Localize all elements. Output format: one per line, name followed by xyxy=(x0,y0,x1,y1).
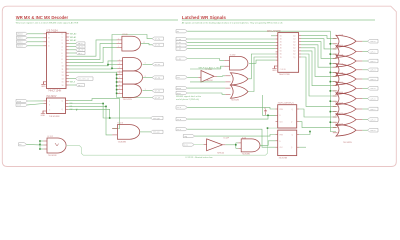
or gate IC12 xyxy=(336,55,356,67)
svg-text:10: 10 xyxy=(62,66,64,68)
wire latch data xyxy=(187,48,275,50)
wire Q6 to gate xyxy=(301,54,336,96)
buffer IC12A xyxy=(201,71,214,83)
svg-text:74LS32N: 74LS32N xyxy=(231,100,240,102)
net flag LD-C xyxy=(176,128,187,132)
svg-text:15: 15 xyxy=(62,82,64,84)
net flag WRMX3 xyxy=(17,44,28,47)
ground U2 xyxy=(41,111,46,118)
U1 pin 14 xyxy=(66,74,69,76)
register U4 MR-LATCH8 xyxy=(278,33,299,73)
junction xyxy=(116,74,118,76)
U1 pin 9 xyxy=(66,58,69,60)
svg-text:LWR-9: LWR-9 xyxy=(370,130,375,132)
wire INC0 xyxy=(68,99,119,129)
wire WR tap xyxy=(330,63,336,65)
wire CLK2 to buffer2 xyxy=(194,144,203,146)
U1 pin 6 xyxy=(66,49,69,51)
svg-text:IC12F: IC12F xyxy=(224,138,230,140)
net flag LWR-6 xyxy=(368,97,379,101)
svg-text:L-D3: L-D3 xyxy=(177,49,181,51)
junction WR tap xyxy=(330,111,332,113)
svg-text:WR-MC: WR-MC xyxy=(155,64,160,66)
wire tap in1 xyxy=(40,140,44,142)
svg-text:IC9 74154: IC9 74154 xyxy=(47,29,59,32)
svg-text:LD-C: LD-C xyxy=(177,129,181,131)
U4 Q3 stub xyxy=(299,44,301,46)
gate1 out stub xyxy=(356,40,362,42)
wire latch d0 xyxy=(271,35,276,37)
svg-text:GND: GND xyxy=(41,86,46,88)
wire gate8 out xyxy=(362,108,367,110)
svg-text:WR-MB: WR-MB xyxy=(155,45,161,47)
net flag LWR-8 xyxy=(368,118,379,122)
or gate IC19 xyxy=(336,124,356,136)
svg-text:74HCT154N: 74HCT154N xyxy=(48,90,62,93)
U1 gnd pin xyxy=(44,81,47,83)
wire PH2 to buffer xyxy=(187,76,198,78)
svg-text:LWR-0: LWR-0 xyxy=(370,41,375,43)
wire U1 pin to flag WR-SP xyxy=(69,49,76,51)
net flag WR-MA xyxy=(152,37,164,40)
wire tap B2 xyxy=(108,64,117,66)
net flag INC-Q0 xyxy=(151,116,164,120)
gate4 out stub xyxy=(356,69,362,71)
junction EN bot xyxy=(39,148,41,150)
or gate IC14A xyxy=(231,73,249,85)
gate9 in1 stub xyxy=(333,116,338,118)
wire INCA xyxy=(28,100,44,102)
U4 Q6 stub xyxy=(299,53,301,55)
U1 pin 5 xyxy=(66,46,69,48)
or gate IC16 xyxy=(336,93,356,105)
wire tap xyxy=(116,81,119,83)
wire L-D4 to AND xyxy=(187,59,224,61)
wire INC1 xyxy=(68,103,103,105)
wire INC2 xyxy=(68,106,112,134)
gate2 out stub xyxy=(356,51,362,53)
or gate IC17 xyxy=(336,103,356,115)
gate10 in2 stub xyxy=(333,132,338,134)
wire U1 pin to flag WR-B xyxy=(69,42,76,44)
wire U1 to flag WR-Y xyxy=(69,84,76,86)
junction LD-B xyxy=(267,115,269,117)
wire Q7 to gate xyxy=(301,57,336,106)
svg-text:74LS08N: 74LS08N xyxy=(242,154,251,156)
svg-text:INC-Q0: INC-Q0 xyxy=(153,118,159,120)
wire U5 Qb to gate10 xyxy=(299,122,336,128)
svg-text:LWR-8: LWR-8 xyxy=(370,119,375,121)
svg-text:LWR-7: LWR-7 xyxy=(370,109,375,111)
svg-text:1: 1 xyxy=(118,39,119,41)
net flag L-D2 xyxy=(176,44,187,47)
wire buffer1 out xyxy=(217,75,225,78)
wire WRMX2 to U1 xyxy=(28,41,44,43)
svg-text:Latched WR Signals: Latched WR Signals xyxy=(182,15,227,20)
svg-text:WRP1: WRP1 xyxy=(177,93,181,95)
junction WR tap xyxy=(330,72,332,74)
U4 Q0 stub xyxy=(299,35,301,37)
wire U6 Qb xyxy=(299,146,306,148)
net flag LWR-0 xyxy=(368,39,379,43)
svg-text:LDQ: LDQ xyxy=(184,136,187,138)
wire net D1 xyxy=(69,44,117,60)
svg-text:WR-A2: WR-A2 xyxy=(70,39,77,42)
svg-text:74LS21N: 74LS21N xyxy=(123,99,133,101)
U2 out pin 1 xyxy=(66,103,69,105)
and gate IC12 1/4 xyxy=(47,138,66,153)
net flag LD-B xyxy=(176,117,187,121)
svg-text:L-D4: L-D4 xyxy=(177,58,181,60)
wire U1 pin to flag WR-PC xyxy=(69,46,76,48)
gate7 out stub xyxy=(356,98,362,100)
wire WR tap xyxy=(330,53,336,55)
net flag L-D0 xyxy=(176,37,187,40)
svg-text:74HC373N: 74HC373N xyxy=(279,74,290,76)
wire WR tap xyxy=(330,71,336,73)
U4 Q7 stub xyxy=(299,56,301,58)
svg-text:74-HC-LATCH-2x: 74-HC-LATCH-2x xyxy=(278,102,295,105)
U1 pin 3 xyxy=(66,39,69,41)
net flag LWR-7 xyxy=(368,107,379,111)
junction EN top xyxy=(39,140,41,142)
svg-text:WR-A1: WR-A1 xyxy=(70,36,77,39)
U1 pin 4 xyxy=(66,42,69,44)
wire gate5 out xyxy=(362,78,367,80)
junction WR tap xyxy=(330,63,332,65)
wire net D3 xyxy=(69,61,117,66)
wire net D5 xyxy=(69,72,152,97)
junction xyxy=(116,78,118,80)
svg-text:13: 13 xyxy=(62,75,64,77)
svg-text:12: 12 xyxy=(62,72,64,74)
latch U5 xyxy=(278,105,297,128)
net flag LWR-2 xyxy=(368,59,379,63)
svg-text:WR MX & INC MX Decoder: WR MX & INC MX Decoder xyxy=(16,15,69,20)
wire Q3 to gate xyxy=(301,45,336,67)
U1 pin 8 xyxy=(66,55,69,57)
wire tap xyxy=(116,89,119,91)
net flag WR xyxy=(176,30,187,33)
gate10 in1 stub xyxy=(333,127,338,129)
svg-text:PH2: PH2 xyxy=(177,77,180,79)
buffer1 out stub xyxy=(214,75,217,77)
net flag L-D3 xyxy=(176,47,187,50)
and gate IC13D xyxy=(230,57,248,71)
wire AND13D out xyxy=(249,60,276,63)
gate4 in1 stub xyxy=(333,66,338,68)
svg-text:MR-LATCH8: MR-LATCH8 xyxy=(267,30,281,33)
wire LD-A to U5 xyxy=(187,107,275,109)
wire EN vertical xyxy=(39,141,41,149)
svg-text:11: 11 xyxy=(62,69,64,71)
wire net D2 xyxy=(69,47,117,62)
wire in2 AND13D xyxy=(190,66,224,69)
or gate IC10 xyxy=(336,35,356,47)
svg-text:GND: GND xyxy=(272,70,277,72)
junction EN mid xyxy=(39,144,41,146)
wire gate6 out xyxy=(362,87,367,89)
svg-text:IC 1/2: IC 1/2 xyxy=(48,136,54,138)
gate10 out stub xyxy=(356,129,362,131)
net flag WRMX0 xyxy=(17,32,28,35)
right title underline xyxy=(182,19,375,21)
gate3 out stub xyxy=(356,60,362,62)
svg-text:7: 7 xyxy=(62,56,63,58)
wire LD-C to U6 xyxy=(187,129,275,147)
svg-text:1: 1 xyxy=(118,46,119,48)
svg-text:What each register's role is i: What each register's role is in which WR… xyxy=(16,21,79,24)
svg-text:WRP0: WRP0 xyxy=(177,88,181,90)
U4 Q1 stub xyxy=(299,38,301,40)
svg-text:1: 1 xyxy=(118,42,119,44)
gate1 in1 stub xyxy=(333,38,338,40)
wire WR common xyxy=(187,31,336,131)
wire gate7 out xyxy=(362,98,367,100)
svg-text:WR-MF: WR-MF xyxy=(155,97,160,99)
wire Q5 to gate xyxy=(301,51,336,86)
wire LD-B to U5 xyxy=(187,115,275,119)
gate7 in2 stub xyxy=(333,100,338,102)
wire tap in3 xyxy=(40,148,44,150)
wire U1 to flag INC-MOV16 xyxy=(69,78,76,80)
frame border xyxy=(2,6,396,166)
wire IC10D out xyxy=(141,44,153,45)
U4 Q4 stub xyxy=(299,47,301,49)
net arrow down xyxy=(76,109,78,111)
net flag WRP1 xyxy=(176,91,187,95)
svg-text:LWR-6: LWR-6 xyxy=(370,98,375,100)
U2 gnd pin xyxy=(43,110,47,112)
wire EN xyxy=(27,143,41,146)
net flag INC-MOV-16 xyxy=(76,77,94,81)
wire WR-CLK long route xyxy=(66,128,278,155)
U2 out pin 3 xyxy=(66,108,69,110)
wire tap xyxy=(116,85,119,87)
wire WRMX3 to U1 xyxy=(28,45,44,47)
wire tap xyxy=(116,77,119,79)
net flag WR-B xyxy=(76,42,86,45)
net flag LWR-5 xyxy=(368,87,379,91)
svg-text:WR-MX signals latch at the: WR-MX signals latch at the xyxy=(176,95,202,98)
gate2 in2 stub xyxy=(333,53,338,55)
junction INC1 xyxy=(102,103,104,105)
wire INCB xyxy=(28,104,44,105)
net flag LWR-3 xyxy=(368,68,379,72)
junction buffer2 xyxy=(235,144,237,146)
net flag L-D1 xyxy=(176,41,187,45)
net flag WRMX1 xyxy=(17,36,28,39)
junction xyxy=(116,93,118,95)
wire IC11B out xyxy=(143,77,153,79)
svg-text:WR-X: WR-X xyxy=(70,82,76,84)
svg-text:All signals are latched on the: All signals are latched on the leading e… xyxy=(182,21,284,24)
net flag WR-MD xyxy=(152,76,164,79)
svg-text:PRE: PRE xyxy=(280,135,283,137)
svg-text:EN: EN xyxy=(19,144,21,146)
svg-text:PRE: PRE xyxy=(280,109,283,111)
or gate IC15 xyxy=(336,82,356,94)
wire IC11A out xyxy=(143,63,153,65)
wire gate4 out xyxy=(362,69,367,71)
junction INC2 xyxy=(105,106,107,108)
wire gate1 out xyxy=(362,40,367,42)
U6 Q stub xyxy=(297,134,299,136)
U4 gnd pin xyxy=(275,65,278,67)
svg-text:INC-MOV: INC-MOV xyxy=(47,96,57,98)
svg-text:WRMX1: WRMX1 xyxy=(17,38,22,40)
junction WR tap xyxy=(330,121,332,123)
wire gate10 out xyxy=(362,129,367,131)
net flag LWR-4 xyxy=(368,77,379,81)
net A marker xyxy=(264,107,267,115)
latch U2 74LS109 xyxy=(47,98,66,114)
gate8 out stub xyxy=(356,108,362,110)
junction xyxy=(111,68,113,70)
net flag LDQ xyxy=(183,135,195,138)
net flag PH2 xyxy=(176,76,187,80)
U5 Q stub xyxy=(297,108,299,110)
svg-text:6: 6 xyxy=(62,53,63,55)
ground U1 xyxy=(41,81,46,88)
svg-text:IC10D: IC10D xyxy=(122,34,128,36)
net flag WR-MC xyxy=(152,63,164,66)
svg-text:74LS74N: 74LS74N xyxy=(279,157,288,159)
net flag INCA xyxy=(16,99,28,102)
U4 Q2 stub xyxy=(299,41,301,43)
junction xyxy=(116,85,118,87)
svg-text:WRMX0: WRMX0 xyxy=(17,34,22,36)
U5 Qb stub xyxy=(297,121,299,123)
junction xyxy=(116,81,118,83)
svg-text:3: 3 xyxy=(62,43,63,45)
svg-text:LWR-3: LWR-3 xyxy=(370,70,375,72)
svg-text:IC13D: IC13D xyxy=(230,55,236,57)
wire U5 Q to gate9 xyxy=(299,109,336,117)
svg-text:74LS32N: 74LS32N xyxy=(343,142,352,144)
net flag LWR-9 xyxy=(368,128,379,132)
net flag WR-Y xyxy=(76,84,85,87)
svg-text:5: 5 xyxy=(62,50,63,52)
wire AND3 in1 xyxy=(236,142,238,144)
gate7 in1 stub xyxy=(333,95,338,97)
wire net D4 to flag xyxy=(69,35,152,70)
and gate IC13B xyxy=(241,139,260,152)
net flag INC-Q1 xyxy=(151,130,164,134)
svg-text:WR-ME: WR-ME xyxy=(155,91,160,93)
junction xyxy=(116,89,118,91)
svg-text:74LS08N: 74LS08N xyxy=(118,142,127,144)
U1 pin 2 xyxy=(66,36,69,38)
wire WR tap xyxy=(330,90,336,92)
wire WRP0 to OR2 xyxy=(187,87,225,89)
or gate IC14 xyxy=(336,73,356,85)
and gate IC11C xyxy=(123,84,142,97)
svg-text:1: 1 xyxy=(62,37,63,39)
wire latch data xyxy=(187,38,275,40)
or gate IC18 xyxy=(336,114,356,126)
U1 pin 11 xyxy=(66,65,69,67)
gate2 in1 stub xyxy=(333,48,338,50)
svg-text:0: 0 xyxy=(62,34,63,36)
svg-text:CLK2: CLK2 xyxy=(184,144,188,146)
gate6 in1 stub xyxy=(333,85,338,87)
or gate IC13 xyxy=(336,64,356,76)
svg-text:74HC04: 74HC04 xyxy=(217,153,224,155)
junction WR-CLK xyxy=(267,127,269,129)
wire latch data xyxy=(187,45,275,47)
net flag WR-SP xyxy=(76,48,86,51)
svg-text:2: 2 xyxy=(62,40,63,42)
net flag WR-PC xyxy=(76,45,86,48)
net flag EN xyxy=(19,143,27,146)
wire Q2 to gate xyxy=(301,42,336,59)
gate9 out stub xyxy=(356,119,362,121)
net flag L-D4 xyxy=(176,57,187,60)
wire U6 Q up xyxy=(299,132,310,135)
junction WR tap xyxy=(330,100,332,102)
gate1 in2 stub xyxy=(333,43,338,45)
wire WR tap xyxy=(330,81,336,83)
wire Q1 to gate xyxy=(301,39,336,49)
wire INC3 xyxy=(68,109,109,118)
wire AND3 in2 xyxy=(236,147,238,149)
U1 pin 13 xyxy=(66,71,69,73)
svg-text:IC 1/3: IC 1/3 xyxy=(118,123,124,125)
svg-text:LWR-4: LWR-4 xyxy=(370,79,375,81)
wire OR1 out xyxy=(248,54,276,79)
buffer2 out stub xyxy=(222,144,225,146)
decoder U1 74HCT154 xyxy=(47,32,67,88)
net flag INCB xyxy=(16,103,28,106)
svg-text:GND: GND xyxy=(41,115,46,117)
buffer IC12F xyxy=(207,139,223,151)
junction WR tap xyxy=(330,43,332,45)
U4 Q5 stub xyxy=(299,50,301,52)
junction U6 Q xyxy=(309,131,311,133)
svg-text:WR-MD: WR-MD xyxy=(155,77,160,79)
U1 pin 16 xyxy=(66,81,69,83)
net flag WR-T xyxy=(76,52,86,55)
junction WR tap xyxy=(330,81,332,83)
junction WR tap xyxy=(330,90,332,92)
gate5 in2 stub xyxy=(333,81,338,83)
gate3 in2 stub xyxy=(333,63,338,65)
gate9 in2 stub xyxy=(333,121,338,123)
svg-text:74LS109N: 74LS109N xyxy=(49,116,60,118)
U1 pin 17 xyxy=(66,84,69,86)
wire IC11C out xyxy=(143,90,153,92)
wire Q0 to gate xyxy=(301,36,336,39)
U1 pin 12 xyxy=(66,68,69,70)
wire INC1 to flag xyxy=(103,104,150,119)
wire tap xyxy=(116,92,119,94)
svg-text:14: 14 xyxy=(62,78,64,80)
wire gate2 out xyxy=(362,51,367,53)
wire buffer2 split xyxy=(235,143,237,149)
and gate IC13A xyxy=(117,125,139,140)
wire IC13A out xyxy=(140,131,151,133)
junction WR tap xyxy=(330,53,332,55)
wire LDQ to U6 xyxy=(195,135,276,137)
net flag WR-ME xyxy=(152,89,164,92)
U1 pin 10 xyxy=(66,62,69,64)
U4 pin 6 stub xyxy=(276,51,278,53)
junction INC3 xyxy=(109,117,111,119)
gate3 in1 stub xyxy=(333,57,338,59)
U1 pin 15 xyxy=(66,78,69,80)
ground U4 xyxy=(272,66,277,73)
